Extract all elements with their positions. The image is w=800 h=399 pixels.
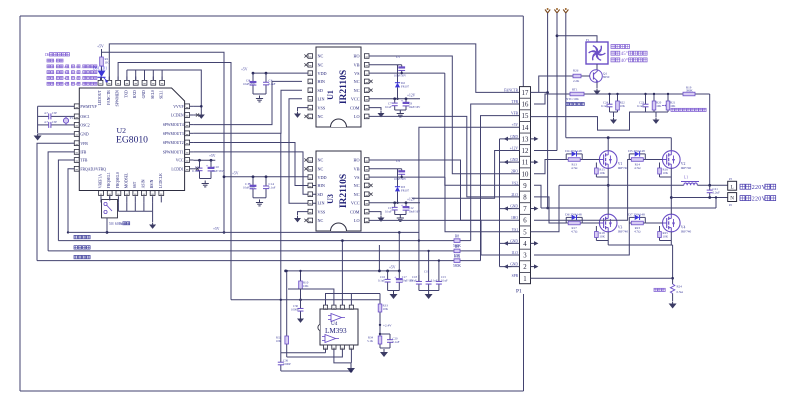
capacitor C15 [438, 275, 440, 281]
wire U3 HO out [369, 160, 520, 220]
svg-text:GND: GND [510, 135, 518, 139]
svg-text:FRQSEL1: FRQSEL1 [107, 172, 111, 188]
pin U1 VS right [364, 72, 369, 74]
resistor R15 [595, 166, 597, 168]
svg-text:U1: U1 [326, 90, 335, 100]
svg-text:10uF/16V: 10uF/16V [243, 186, 256, 190]
svg-text:15P: 15P [52, 111, 57, 115]
svg-text:SD: SD [318, 88, 323, 93]
svg-text:PWMTYP: PWMTYP [80, 105, 96, 109]
svg-text:FR107: FR107 [401, 189, 410, 193]
pin U2 VCC [187, 159, 193, 161]
wire U3 VB [369, 168, 402, 170]
resistor R12 [452, 260, 454, 262]
pin U1 VSS left [308, 107, 313, 109]
terminal N [728, 193, 737, 202]
diode D3 [397, 169, 399, 182]
wire OSC harness [37, 106, 39, 131]
wire LCDD1 stub [193, 168, 196, 170]
svg-text:HIN: HIN [318, 79, 325, 84]
mosfet V3 [599, 214, 617, 232]
wire V3 gate feed [534, 197, 566, 223]
pin U3 COM right [364, 211, 369, 213]
svg-text:VCC: VCC [176, 159, 184, 163]
note sine output L [740, 184, 745, 189]
svg-text:R9: R9 [455, 245, 459, 249]
pin U2 OSC1 [71, 115, 77, 117]
ground C16 C17 [388, 290, 400, 292]
svg-text:10K: 10K [599, 171, 605, 175]
terminal FAN+ [554, 10, 559, 14]
svg-text:1HO: 1HO [511, 216, 518, 220]
wire U3 VSS ground [298, 212, 309, 216]
terminal DC+ [545, 10, 550, 14]
capacitor C20 [379, 346, 381, 348]
wire U3 COM ground [369, 212, 381, 215]
wire L output [559, 184, 684, 186]
svg-text:NC: NC [354, 192, 360, 197]
svg-text:2HO: 2HO [511, 170, 518, 174]
svg-text:10uF/16V: 10uF/16V [409, 105, 422, 109]
wire V1-V3 leg [607, 168, 609, 214]
wire cap drop B [428, 251, 430, 275]
wire current feedback bus [74, 246, 77, 249]
svg-text:OSC1: OSC1 [80, 115, 89, 119]
wire U1 NC stubs [304, 54, 307, 57]
pin U3 VSS left [308, 211, 313, 213]
pin P1 8 2LO [520, 190, 531, 192]
pin U3 NC left [308, 159, 313, 161]
wire SPWMEN route [118, 63, 231, 300]
wire V2-V4 leg [670, 168, 672, 214]
wire bottom link [281, 370, 351, 372]
capacitor C18 [418, 275, 420, 281]
wire SEL0 route [152, 70, 154, 80]
svg-text:C19: C19 [424, 269, 430, 273]
pin P1 4 GND [520, 237, 531, 239]
resistor R24 shunt [654, 288, 657, 291]
svg-text:SPWMOUT1: SPWMOUT1 [163, 151, 184, 155]
resistor R20 [653, 94, 655, 99]
wire spwm1 to U3 SD [193, 152, 316, 194]
jumper 50/60Hz select [102, 200, 118, 218]
ground Q1 [596, 82, 598, 88]
wire RXD route [135, 70, 137, 80]
svg-text:0.1uF: 0.1uF [385, 105, 392, 109]
svg-text:SEL0: SEL0 [151, 90, 155, 99]
connector P1 body [520, 87, 531, 284]
capacitor C30 [300, 300, 302, 304]
svg-text:+: + [401, 202, 404, 207]
op-amp A triangle [331, 314, 342, 322]
wire L1 to L terminal [697, 184, 727, 186]
svg-text:10K: 10K [620, 104, 626, 108]
svg-text:10uF/50V: 10uF/50V [394, 74, 407, 78]
svg-text:C9: C9 [396, 159, 400, 163]
svg-text:LIN: LIN [318, 97, 325, 102]
svg-text:10K: 10K [599, 235, 605, 239]
wire cap drop C [438, 261, 440, 275]
svg-text:BSIN: BSIN [150, 179, 154, 188]
wire GND channel bus [499, 139, 501, 267]
svg-text:LO: LO [354, 218, 360, 223]
svg-text:IFB: IFB [80, 151, 86, 155]
ground U2 bottom [152, 211, 154, 222]
wire R10 chain [300, 271, 302, 279]
pin U2 ASIN [143, 196, 145, 202]
pin U1 VB right [364, 64, 369, 66]
wire terminal1 drop [547, 13, 549, 208]
svg-text:16: 16 [522, 102, 529, 109]
pin U2 SPWMOUT1 [187, 151, 193, 153]
resistor R17 [566, 222, 568, 224]
svg-text:VSS: VSS [318, 105, 326, 110]
pin U1 NC left [308, 64, 313, 66]
svg-text:NC: NC [318, 158, 324, 163]
svg-text:MODSEL: MODSEL [124, 172, 128, 188]
resistor R23 [629, 222, 631, 224]
wire V4 source [670, 232, 672, 245]
wire VFB drop [37, 143, 71, 260]
resistor R19 [681, 93, 683, 95]
pin U1 HO right [364, 55, 369, 57]
svg-text:+5V: +5V [241, 68, 248, 72]
svg-text:VB: VB [354, 63, 360, 68]
svg-text:IR2110S: IR2110S [339, 70, 349, 104]
capacitor C6 [199, 160, 201, 168]
svg-text:GND: GND [510, 263, 518, 267]
wire outer frame left [19, 16, 21, 391]
wire N line [671, 197, 727, 199]
capacitor C19 [428, 275, 430, 281]
svg-text:+5V: +5V [389, 266, 396, 270]
wire U2 VCC [193, 159, 215, 161]
svg-text:SPWMEN: SPWMEN [116, 90, 120, 107]
svg-text:VS: VS [354, 71, 360, 76]
capacitor C17 [398, 271, 400, 279]
svg-text:15P: 15P [52, 120, 57, 124]
pin U1 NC right [364, 80, 369, 82]
svg-text:LEDOUT: LEDOUT [98, 90, 102, 106]
wire GND pin to ground [38, 133, 71, 135]
svg-text:NC: NC [318, 63, 324, 68]
ic U3 IR2110S body [316, 151, 361, 231]
svg-text:4.7Ω: 4.7Ω [571, 229, 578, 233]
resistor R16 [659, 166, 661, 168]
svg-text:4.7Ω: 4.7Ω [634, 229, 641, 233]
wire R33 chain [379, 294, 381, 303]
svg-text:NC: NC [318, 167, 324, 172]
wire U3 VS out [369, 176, 445, 178]
wire U1 HO out [369, 56, 520, 174]
ground U3 caps [253, 197, 266, 199]
svg-text:4.7Ω: 4.7Ω [571, 166, 578, 170]
pin U3 VB right [364, 168, 369, 170]
svg-text::: : [55, 76, 56, 80]
wire VS1 riser [531, 185, 560, 232]
svg-text:VFB: VFB [80, 142, 88, 146]
svg-text:VVVF: VVVF [173, 105, 183, 109]
pin U2 VFB [71, 142, 77, 144]
capacitor C31 [287, 352, 289, 354]
ground C30 [300, 316, 302, 319]
note sine output N [740, 196, 745, 201]
svg-text:14: 14 [522, 125, 529, 132]
svg-text:+: + [394, 275, 397, 280]
wire VVVF stub [193, 105, 201, 107]
terminal BUS+ [563, 10, 568, 14]
svg-text:VCC: VCC [351, 97, 360, 102]
svg-text:L: L [731, 184, 734, 190]
ground divider2 [646, 111, 669, 113]
resistor R8 [452, 240, 454, 242]
svg-text:0.1uF: 0.1uF [601, 104, 608, 108]
svg-text:RT1: RT1 [572, 88, 578, 92]
svg-text:12: 12 [522, 148, 529, 155]
wire V1 gate feed [534, 160, 566, 174]
pin U2 SST [134, 196, 136, 202]
pin U2 LEDOUT [100, 77, 102, 83]
svg-text:GND: GND [510, 158, 518, 162]
wire U4 pin riser to temp bus [341, 241, 343, 306]
svg-text:0.5Ω: 0.5Ω [677, 290, 684, 294]
svg-text:SPWMOUT4: SPWMOUT4 [163, 123, 184, 127]
resistor R18 [595, 230, 597, 232]
ground U2 VCC [200, 178, 212, 180]
wire +12V to P1 [412, 151, 520, 199]
svg-text:OSC2: OSC2 [80, 124, 89, 128]
wire LCDEN stub [193, 114, 196, 116]
pin U2 GND [144, 77, 146, 83]
pin U4 top 8 [325, 306, 327, 309]
wire TXD route [126, 70, 128, 80]
svg-text:10uF/16V: 10uF/16V [212, 169, 225, 173]
wire V1 drain [607, 138, 609, 151]
pin U1 VCC right [364, 98, 369, 100]
svg-text:/: / [113, 222, 114, 226]
wire U1 NC right stubs [369, 80, 372, 83]
svg-text:VDD: VDD [318, 175, 327, 180]
pin U2 SPWMEN [117, 77, 119, 83]
svg-text:0.1uF: 0.1uF [393, 340, 400, 344]
svg-text:Y1: Y1 [70, 116, 74, 120]
svg-text:EG8010: EG8010 [116, 135, 148, 146]
pin U2 FRQSEL1 [109, 196, 111, 202]
svg-text:+5V: +5V [209, 154, 216, 158]
svg-text:GND: GND [510, 239, 518, 243]
svg-text:NC: NC [318, 54, 324, 59]
pin U1 NC left [308, 115, 313, 117]
pin U3 VS right [364, 176, 369, 178]
capacitor C36 [280, 353, 282, 358]
svg-text:°: ° [626, 59, 628, 64]
pin U2 BSIN [152, 196, 154, 202]
ground C18 C19 C15 [419, 290, 439, 292]
wire U4 bottom harness [325, 349, 327, 352]
wire U4 top harness [326, 294, 381, 306]
wire U1 LIN link [289, 99, 316, 204]
svg-text:0.1uF: 0.1uF [378, 278, 385, 282]
wire vsense drop [709, 94, 711, 185]
pin U2 LCDEN [187, 114, 193, 116]
svg-text:HO: HO [353, 54, 359, 59]
svg-text:VS: VS [354, 175, 360, 180]
svg-text:0.1uF: 0.1uF [385, 209, 392, 213]
wire U1 LO out [369, 116, 520, 196]
pin U4 bottom 4 [350, 345, 352, 349]
svg-text:COM: COM [350, 209, 360, 214]
svg-text:10K: 10K [383, 307, 389, 311]
svg-text:GND: GND [80, 133, 88, 137]
svg-text:2: 2 [523, 264, 527, 271]
ground R24 [672, 294, 674, 302]
svg-text:LM393: LM393 [325, 327, 347, 335]
svg-text:NC: NC [354, 88, 360, 93]
svg-text:NC: NC [354, 183, 360, 188]
pin U1 NC left [308, 55, 313, 57]
wire V2 drain [670, 138, 672, 151]
wire U3 LO out [369, 220, 520, 255]
svg-text:ASIN: ASIN [141, 179, 145, 188]
wire gate link [565, 217, 567, 223]
wire U1 VB [369, 64, 402, 66]
wire cap drop A [418, 239, 420, 241]
svg-text:4.7: 4.7 [44, 111, 48, 115]
wire +5V to P1 pin14 [419, 127, 520, 282]
pin U2 FRQADJ/VFRQ [71, 168, 77, 170]
svg-text:4.7: 4.7 [44, 120, 48, 124]
svg-text:RXD: RXD [133, 90, 137, 98]
svg-text:10K: 10K [670, 104, 676, 108]
wire spwm3 to U1 SD [193, 90, 302, 133]
svg-text:VDD: VDD [318, 71, 327, 76]
svg-text:V: V [762, 185, 767, 191]
wire spwm4 to U1 HIN [193, 81, 302, 124]
pin U4 bottom 3 [341, 345, 343, 349]
pin U3 LO right [364, 219, 369, 221]
svg-text:390K: 390K [686, 88, 694, 92]
svg-text:TFB: TFB [80, 159, 87, 163]
svg-text:IRF740: IRF740 [618, 229, 629, 233]
pin U2 SPWMOUT2 [187, 142, 193, 144]
svg-text:L1: L1 [684, 176, 688, 180]
svg-text:GND: GND [142, 90, 146, 98]
capacitor C8 [405, 99, 407, 103]
pin U2 PWMTYP [71, 105, 77, 107]
svg-text:0.1uF: 0.1uF [410, 278, 417, 282]
svg-text:+5V: +5V [232, 172, 239, 176]
wire FANCTR to Q1 [531, 91, 548, 93]
svg-text:N: N [730, 196, 734, 202]
svg-text:SEL1: SEL1 [160, 90, 164, 99]
pin P1 7 GND [520, 202, 531, 204]
wire LED to LEDOUT [101, 77, 103, 80]
svg-text:NC: NC [318, 218, 324, 223]
svg-text:IRF740: IRF740 [681, 166, 692, 170]
svg-text:10K: 10K [663, 171, 669, 175]
pin P1 6 1HO [520, 213, 531, 215]
svg-text:FR107: FR107 [401, 85, 410, 89]
svg-text:IRF740: IRF740 [681, 229, 692, 233]
pin U2 VVVF [187, 105, 193, 107]
svg-text:C5: C5 [396, 55, 400, 59]
wire fan supply [557, 36, 597, 42]
svg-text:10K: 10K [276, 339, 282, 343]
pin U3 NC left [308, 219, 313, 221]
svg-text:2LO: 2LO [511, 193, 518, 197]
svg-text:FANCTR: FANCTR [504, 88, 519, 92]
svg-text:+2.4V: +2.4V [383, 323, 392, 327]
pin U3 NC right [364, 193, 369, 195]
svg-text:1000P: 1000P [283, 362, 291, 366]
svg-text:V: V [762, 197, 767, 203]
wire IFB drop [48, 152, 70, 251]
svg-text:IRF740: IRF740 [618, 166, 629, 170]
svg-text:SPWMOUT3: SPWMOUT3 [163, 132, 184, 136]
wire FRQADJ drop [68, 169, 71, 233]
mosfet V4 [663, 214, 681, 232]
pin U4 top 7 [333, 306, 335, 309]
pin U1 NC right [364, 89, 369, 91]
capacitor C7 [394, 99, 396, 103]
resistor R34 [379, 334, 381, 336]
ground OSC [37, 131, 39, 133]
pin U4 top 5 [350, 306, 352, 309]
pin U2 GND [71, 133, 77, 135]
pin U2 SPWMOUT3 [187, 132, 193, 134]
resistor R25 [659, 230, 661, 232]
svg-text:0.1uF: 0.1uF [637, 104, 644, 108]
capacitor C16 [387, 271, 389, 279]
svg-text:FRQADJ/VFRQ: FRQADJ/VFRQ [80, 167, 106, 171]
pin U3 VDD left [308, 176, 313, 178]
svg-text:IR2110S: IR2110S [339, 174, 349, 208]
ground U1 caps [253, 93, 266, 95]
svg-text:17: 17 [522, 90, 529, 97]
svg-text:TXD: TXD [124, 90, 128, 98]
svg-text:D6 LED1: D6 LED1 [93, 67, 107, 71]
svg-text:0.1uF: 0.1uF [269, 186, 276, 190]
resistor R1 [101, 55, 103, 57]
svg-text::: : [55, 82, 56, 86]
capacitor C14 [265, 177, 267, 186]
wire long left rail [280, 133, 282, 352]
pin U2 IFB [71, 151, 77, 153]
pin U3 NC left [308, 168, 313, 170]
svg-text:15: 15 [522, 113, 529, 120]
wire C17 riser [398, 232, 400, 271]
svg-text:8: 8 [523, 195, 527, 202]
pin U3 HO right [364, 159, 369, 161]
pin P1 3 1LO [520, 248, 531, 250]
ground VVVF collector [200, 113, 202, 115]
pin U1 LO right [364, 115, 369, 117]
pin P1 12 +12V [520, 144, 531, 146]
pin U2 SEL0 [152, 77, 154, 83]
pin U4 bottom 1 [325, 345, 327, 349]
svg-text:R26: R26 [573, 69, 579, 73]
pin P1 14 +5V [520, 120, 531, 122]
svg-text:VS2: VS2 [512, 181, 519, 185]
wire outer frame bottom [20, 390, 524, 392]
pin U2 OSC2 [71, 124, 77, 126]
ground U1 VCC caps [395, 109, 406, 111]
svg-text:+5V: +5V [97, 45, 104, 49]
resistor R22 [617, 94, 619, 99]
svg-text:6: 6 [523, 218, 527, 225]
svg-text::: : [55, 59, 56, 63]
svg-text:10uF/25V: 10uF/25V [243, 82, 256, 86]
